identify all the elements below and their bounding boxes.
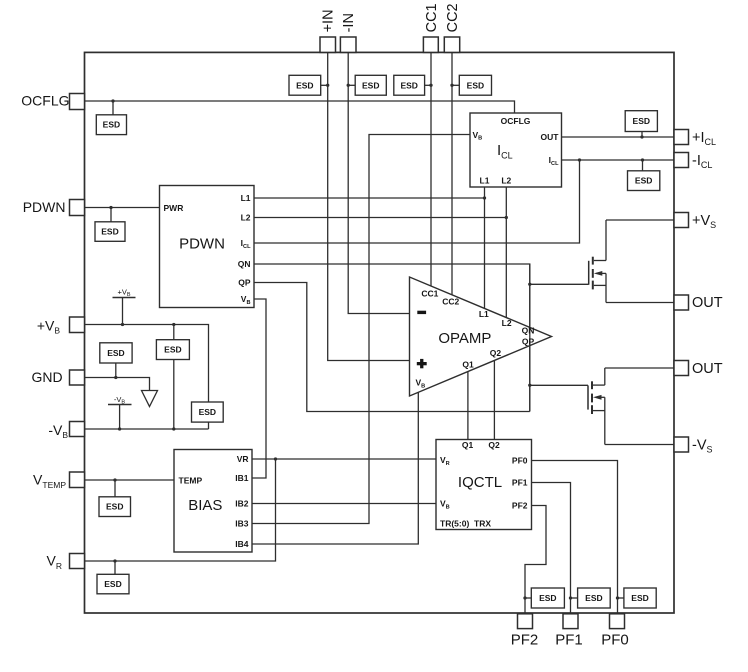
svg-text:OUT: OUT (692, 295, 723, 311)
svg-text:OCFLG: OCFLG (501, 116, 531, 126)
svg-text:CC2: CC2 (445, 3, 461, 32)
svg-text:OUT: OUT (692, 361, 723, 377)
svg-text:PF2: PF2 (512, 501, 528, 511)
svg-text:ESD: ESD (101, 227, 118, 237)
svg-text:IB4: IB4 (235, 539, 249, 549)
svg-text:OUT: OUT (541, 132, 560, 142)
svg-text:PDWN: PDWN (23, 199, 66, 215)
svg-text:L1: L1 (241, 193, 251, 203)
svg-text:ESD: ESD (635, 176, 652, 186)
svg-text:Q2: Q2 (488, 440, 500, 450)
svg-text:ESD: ESD (103, 120, 120, 130)
svg-text:PF1: PF1 (512, 478, 528, 488)
svg-text:IB3: IB3 (235, 519, 249, 529)
svg-text:TEMP: TEMP (179, 475, 203, 485)
svg-text:-IN: -IN (341, 13, 357, 32)
svg-text:L1: L1 (479, 309, 489, 319)
svg-text:ESD: ESD (631, 593, 648, 603)
svg-text:OCFLG: OCFLG (21, 93, 69, 109)
svg-text:CC1: CC1 (424, 3, 440, 32)
svg-text:OPAMP: OPAMP (438, 330, 491, 347)
svg-text:GND: GND (31, 369, 62, 385)
svg-text:IQCTL: IQCTL (458, 474, 502, 491)
svg-text:ESD: ESD (467, 80, 484, 90)
svg-text:TR(5:0) TRX: TR(5:0) TRX (440, 519, 491, 529)
svg-text:PF0: PF0 (512, 456, 528, 466)
svg-text:ESD: ESD (199, 407, 216, 417)
svg-text:ESD: ESD (107, 348, 124, 358)
svg-text:ESD: ESD (539, 593, 556, 603)
svg-text:+IN: +IN (321, 9, 337, 32)
svg-text:PF0: PF0 (601, 632, 629, 649)
svg-text:CC2: CC2 (442, 297, 459, 307)
svg-text:Q2: Q2 (490, 348, 502, 358)
svg-text:QP: QP (238, 278, 251, 288)
svg-text:PWR: PWR (164, 203, 184, 213)
svg-text:VR: VR (237, 454, 249, 464)
svg-text:ESD: ESD (585, 593, 602, 603)
svg-text:ESD: ESD (104, 579, 121, 589)
svg-text:ESD: ESD (400, 80, 417, 90)
svg-text:ESD: ESD (362, 80, 379, 90)
svg-text:Q1: Q1 (462, 440, 474, 450)
svg-text:Q1: Q1 (462, 359, 474, 369)
svg-text:L2: L2 (501, 176, 511, 186)
svg-text:QN: QN (238, 259, 251, 269)
svg-text:L2: L2 (502, 318, 512, 328)
svg-text:ESD: ESD (106, 502, 123, 512)
svg-text:BIAS: BIAS (188, 497, 222, 514)
svg-text:ESD: ESD (296, 80, 313, 90)
svg-text:L2: L2 (241, 213, 251, 223)
svg-text:ESD: ESD (633, 116, 650, 126)
svg-text:QN: QN (522, 325, 535, 335)
svg-text:IB2: IB2 (235, 499, 249, 509)
svg-text:IB1: IB1 (235, 473, 249, 483)
svg-text:PDWN: PDWN (179, 236, 225, 253)
svg-text:PF2: PF2 (511, 632, 539, 649)
svg-text:L1: L1 (480, 176, 490, 186)
svg-text:QP: QP (522, 337, 535, 347)
svg-text:PF1: PF1 (555, 632, 583, 649)
svg-text:ESD: ESD (164, 345, 181, 355)
svg-text:CC1: CC1 (421, 289, 438, 299)
